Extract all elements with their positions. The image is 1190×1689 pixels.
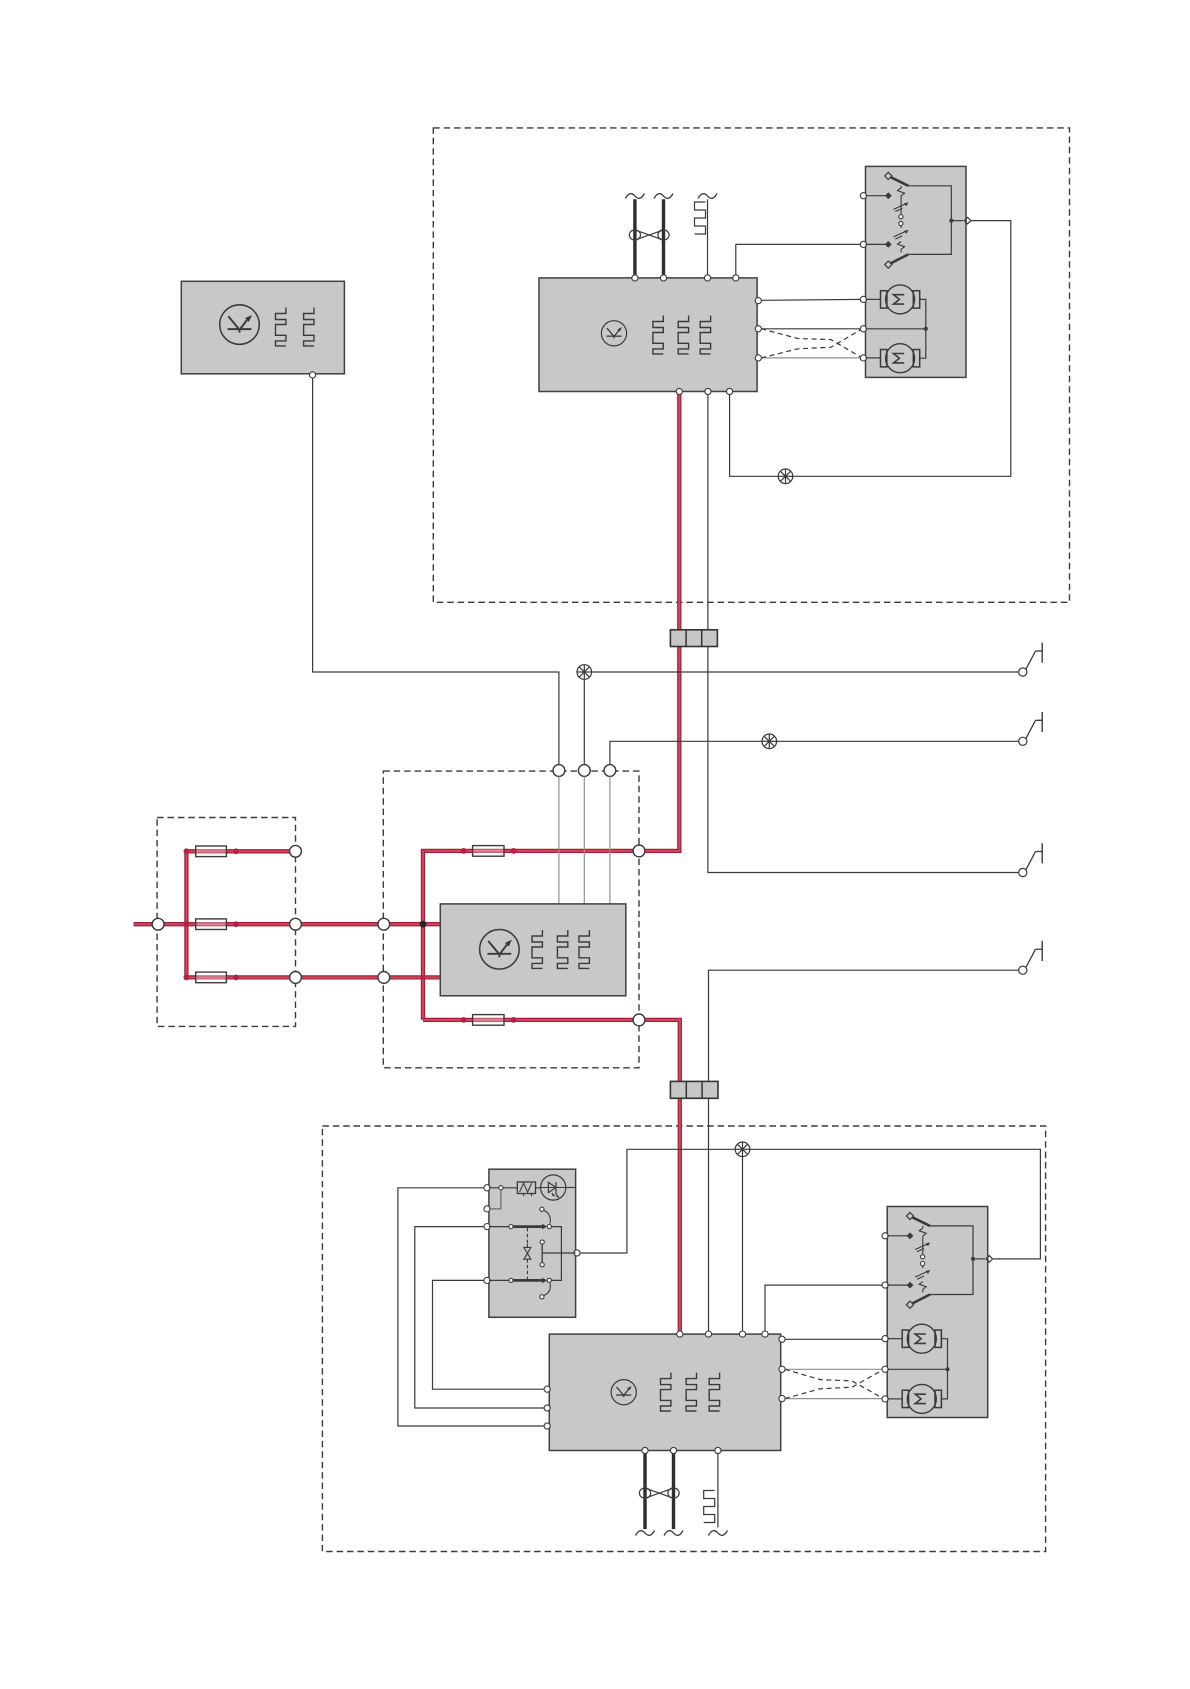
mirror motor unit D (top right) — [866, 166, 967, 377]
common output wires in K — [551, 1227, 561, 1281]
comb element 1 in F — [661, 1373, 671, 1411]
wire row2 solid: F to L — [785, 1368, 884, 1370]
position bar in K — [540, 1240, 544, 1244]
pins on F bottom edge — [642, 1447, 648, 1453]
twisted pair wire 1 (top) — [633, 199, 636, 276]
motor M3 in L — [902, 1324, 941, 1353]
wire: switch K pin1 route to ECU F — [398, 1188, 544, 1426]
wire: node up and to suppressor L2 and switch S2 — [610, 741, 1019, 764]
LED feed wire in K — [489, 1187, 517, 1189]
wire row3 solid: F to L — [785, 1398, 884, 1400]
connector circles middle enclosure — [378, 918, 390, 930]
twisted pair wire 1 (bottom) — [643, 1454, 646, 1530]
square wave symbol (top) — [695, 202, 706, 234]
connector block (bottom, 3-way) — [670, 1081, 718, 1098]
dashed enclosure: door unit (bottom) — [322, 1126, 1045, 1552]
ECU module F (bottom) — [549, 1334, 780, 1450]
fuse F4 (row A) — [473, 846, 504, 857]
wire: control module A1 to node row — [313, 375, 559, 770]
pin on L right edge — [986, 1256, 993, 1263]
wire: L pin3 to motor M3 — [887, 1338, 902, 1340]
comb element 2 in G — [557, 930, 567, 968]
pins on C bottom edge — [676, 388, 682, 394]
wire: ECU pin via interference lamp L0 to mirror unit — [730, 221, 1011, 477]
pins on C top edge — [632, 275, 638, 281]
wire: L pin5 to motor M4 — [887, 1398, 902, 1400]
pin on A1 bottom — [310, 372, 316, 378]
rocker contact lower in K — [489, 1279, 509, 1281]
pulse signal wire (top) — [707, 199, 709, 276]
wire: switch S4 to bottom ECU — [709, 970, 1019, 1333]
wire: D pin4 to common vertical — [866, 328, 926, 330]
dashed cross wire row3-row2 — [761, 329, 862, 358]
wire: mirror switch K to suppressor L3 loop — [577, 1149, 735, 1253]
dashed enclosure: door unit (top) — [433, 128, 1069, 602]
wire: ECU F top pin to mirror unit L pin2 — [765, 1285, 883, 1333]
motor M1 in D — [881, 285, 920, 314]
red supply wire: top ECU down to middle junction row — [677, 393, 681, 851]
wire row3 solid: C to D — [761, 357, 862, 359]
junction dots in fuse box — [184, 848, 190, 854]
gauge symbol in F — [611, 1380, 636, 1405]
comb element 3 in C — [700, 316, 710, 354]
red wire fuse row3 — [186, 975, 441, 979]
pulse signal wire (bottom) — [717, 1454, 719, 1528]
wire: L3 to bottom mirror unit right pin — [750, 1149, 1041, 1259]
gauge symbol in C — [601, 321, 626, 346]
main red feed wire (left) — [134, 922, 187, 926]
wire row1: C to mirror motor unit D — [761, 298, 862, 301]
courtesy switch S2 — [1019, 712, 1042, 745]
comb element 2 in F — [686, 1373, 696, 1411]
dashed cross wire row3-row2 (bottom) — [785, 1369, 884, 1398]
wire row1: F to mirror unit L — [785, 1338, 884, 1340]
mirror motor unit L (bottom right) — [887, 1207, 988, 1418]
rocker contact upper in K — [489, 1226, 509, 1228]
cable break tilde pulse (bottom) — [708, 1530, 727, 1535]
ECU module C (top) — [539, 278, 757, 392]
LED indicator in K — [541, 1175, 566, 1200]
cable break tilde wire1 — [625, 193, 644, 198]
comb element 2 in A1 — [304, 308, 314, 346]
pins on D left edge — [860, 193, 866, 199]
dashed enclosure: power distribution (middle) — [383, 771, 639, 1068]
control module A1 (top left) — [181, 281, 344, 374]
pins on C right edge — [755, 298, 761, 304]
red branch vertical in fuse box — [184, 851, 188, 977]
comb element 3 in F — [709, 1373, 719, 1411]
comb element 1 in C — [653, 316, 663, 354]
motor M3 to common vertical (L) — [941, 1339, 947, 1370]
mechanical link with detent in K — [526, 1228, 528, 1244]
position switch upper in D — [866, 195, 889, 197]
wire: D pin3 to motor M1 — [866, 298, 881, 300]
motor M4 in L — [902, 1384, 941, 1413]
dashed cross wire row2-row3 (bottom) — [785, 1369, 884, 1399]
spring-return arc lower — [540, 1295, 544, 1299]
position switch lower in L — [887, 1284, 910, 1286]
wire resistor to LED — [536, 1187, 541, 1189]
pins on F left edge — [544, 1386, 550, 1392]
fuse F5 (row D) — [473, 1015, 504, 1026]
comb element 3 in G — [579, 930, 589, 968]
dashed cross wire row2-row3 — [761, 329, 862, 358]
wire: L pin4 to common vertical — [887, 1368, 947, 1370]
twisted pair wire 2 (bottom) — [672, 1454, 675, 1530]
wire: switch K pin4 route to ECU F — [433, 1280, 545, 1389]
common vertical to motor M2 — [920, 329, 926, 358]
resistor in K — [517, 1182, 535, 1194]
red fused feed row D to bottom ECU — [423, 1020, 680, 1333]
node circles on middle enclosure top edge — [553, 765, 565, 777]
switch common frame in L — [930, 1226, 973, 1295]
wire: L1 to courtesy switch S1 — [592, 671, 1019, 673]
cable break tilde pulse wire (top) — [698, 193, 717, 198]
door-open switch S4 — [1019, 941, 1042, 974]
common vertical to motor M4 (L) — [941, 1369, 947, 1399]
twisted pair wire 2 (top) — [662, 199, 665, 276]
twisted pair crossing symbol (bottom) — [639, 1488, 679, 1498]
comb element 2 in C — [678, 316, 688, 354]
fuse F3 (row3) — [196, 972, 227, 983]
wire: ECU top pin to mirror unit pin2 — [736, 244, 864, 276]
door-open switch S3 — [1019, 843, 1042, 876]
fuse F2 (row2) — [196, 919, 227, 930]
interference suppressor L2 — [762, 734, 777, 749]
wire: switch K pin3 route to ECU F — [415, 1227, 544, 1408]
cable break tilde wire2 — [654, 193, 673, 198]
interference suppressor L0 — [778, 469, 793, 484]
courtesy switch S1 — [1019, 643, 1042, 676]
red fused feed row A to top ECU — [423, 849, 679, 853]
wire: L3 down to ECU F — [742, 1157, 744, 1333]
square wave symbol (bottom) — [704, 1491, 715, 1523]
pins on F right edge — [779, 1336, 785, 1342]
pins on K left edge — [484, 1185, 490, 1191]
twisted pair crossing symbol (top) — [629, 230, 669, 240]
wire: node to lamp L1 junction — [583, 680, 585, 765]
red wire fuse row2 — [186, 922, 441, 926]
sensor wires from module G to nodes — [558, 776, 560, 904]
pin on K right edge — [574, 1250, 580, 1256]
fuse F1 (row1) — [196, 846, 227, 857]
motor M2 in D — [881, 344, 920, 373]
pin on D right edge — [964, 217, 971, 224]
black junction dot row B — [420, 921, 427, 928]
red vertical branch in middle enclosure — [421, 851, 425, 1020]
dashed enclosure: fuse box (left) — [157, 818, 295, 1027]
wire: D pin5 to motor M2 — [866, 357, 881, 359]
red wire fuse row1 — [186, 849, 293, 853]
gauge symbol in G — [480, 930, 520, 970]
mirror control switch K — [489, 1169, 576, 1317]
red junction dot row C — [421, 975, 426, 980]
gauge symbol in A1 — [220, 305, 260, 345]
spring-return arc upper — [540, 1207, 544, 1211]
comb element 1 in A1 — [276, 308, 286, 346]
wire row2 solid: C to D — [761, 328, 862, 330]
wire: ECU pulse pin down to door-open switch S3 — [708, 393, 1019, 873]
comb element 1 in G — [532, 930, 542, 968]
wire LED to K right edge — [566, 1187, 576, 1189]
switch common frame in D — [908, 186, 951, 255]
wire K pin2 to LED row — [489, 1190, 501, 1209]
interference suppressor L1 — [577, 665, 592, 680]
position switch lower in D — [866, 243, 889, 245]
connector block (top, 3-way) — [670, 630, 717, 647]
cable break tilde bottom wire2 — [664, 1530, 683, 1535]
pins on L left edge — [882, 1233, 888, 1239]
pins on F top edge — [677, 1331, 683, 1337]
motor M1 to common vertical — [920, 299, 926, 328]
position switch upper in L — [887, 1235, 910, 1237]
cable break tilde bottom wire1 — [636, 1530, 655, 1535]
interference suppressor L3 — [735, 1142, 750, 1157]
sensor module G (middle) — [440, 904, 626, 996]
connector circles on fuse box edges — [152, 918, 164, 930]
